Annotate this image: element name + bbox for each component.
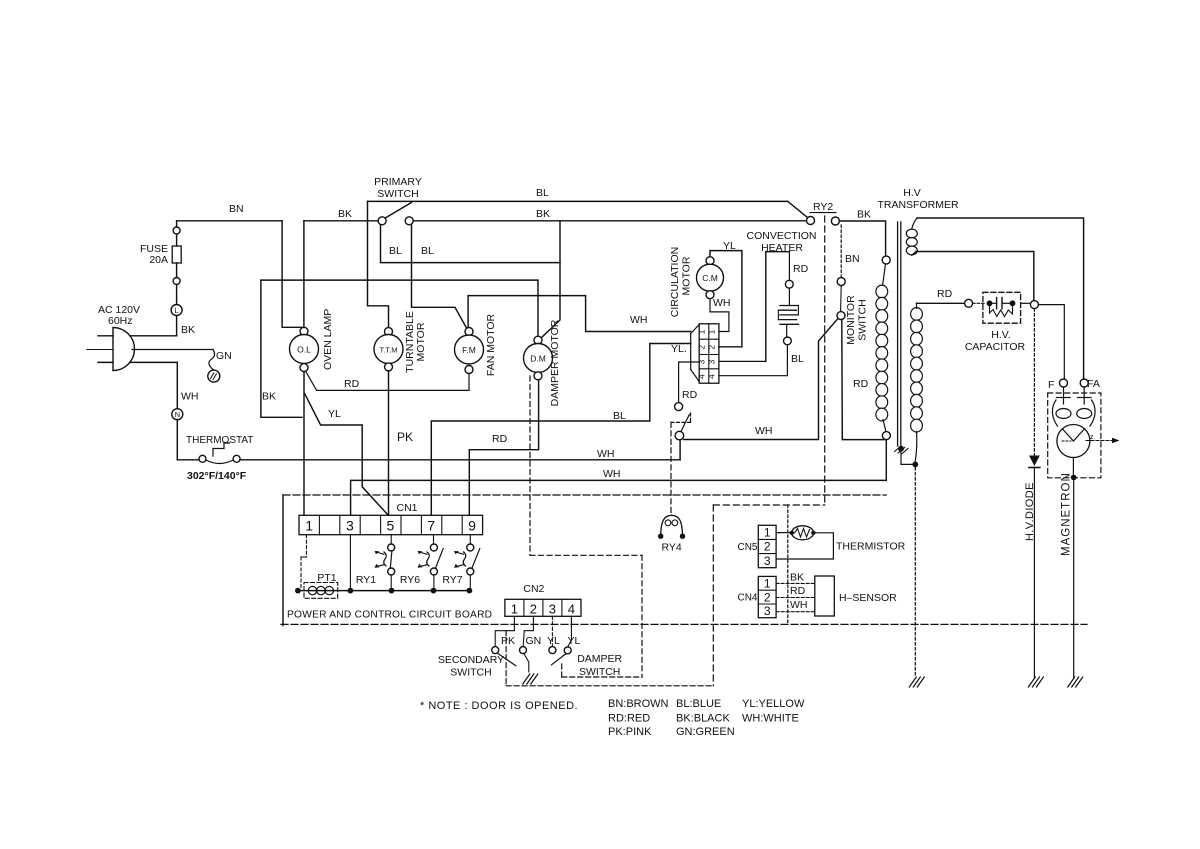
wire WH C.M to CN3 pin1 [710,299,729,332]
svg-text:BK: BK [181,324,195,336]
ground [1028,677,1035,687]
svg-text:PRIMARY: PRIMARY [374,176,422,188]
wire RD CN4 pin2 to H-sensor [776,597,815,599]
wire BK bus to RY2 [413,220,806,222]
wire PK T.T.M to CN1 pin5 [388,371,390,515]
wire RD CN3 pin3 to contact [679,362,700,402]
svg-text:9: 9 [468,518,476,534]
svg-text:YL:YELLOW: YL:YELLOW [742,698,805,710]
node F.M top terminal [465,328,473,336]
wire BK left loop [261,280,302,417]
node D.M top terminal [534,336,542,344]
wire CN1 pin1 to PT1 bus [306,535,308,557]
wire BK to damper motor (y280) [261,280,538,336]
svg-text:WH: WH [181,391,199,403]
svg-text:T.T.M: T.T.M [380,345,398,354]
svg-text:2: 2 [764,540,771,554]
svg-text:CIRCULATION: CIRCULATION [669,247,681,317]
lamp terminal L [171,305,182,316]
svg-text:C.M: C.M [702,273,718,283]
svg-text:SWITCH: SWITCH [579,666,620,678]
wire WH1 up to contact [679,440,681,460]
wire WH plug to N [130,361,177,363]
wire BN to monitor switch [840,225,842,278]
dashed RY2 wire [824,216,826,505]
svg-text:RD: RD [682,389,698,401]
wire CN2 pin2 to ground [523,616,533,646]
svg-text:MOTOR: MOTOR [415,322,427,361]
svg-text:D.M: D.M [530,353,546,363]
wire CN2 pin3 to damper switch [551,616,553,646]
monitor switch [837,278,845,286]
dashed damper box [561,664,563,677]
wire WH to monitor switch [684,319,838,440]
wire WH1 thermostat to control area [240,459,680,461]
svg-text:THERMISTOR: THERMISTOR [836,541,906,553]
svg-text:DAMPER: DAMPER [577,653,622,665]
svg-text:7: 7 [427,518,435,534]
ground [523,674,530,684]
svg-text:RD: RD [853,378,869,390]
svg-text:POWER AND CONTROL CIRCUIT BOAR: POWER AND CONTROL CIRCUIT BOARD [287,610,492,621]
transformer core [897,222,899,446]
node HV junction [1030,301,1038,309]
node oven-lamp top terminal [300,327,308,335]
wire RD monitor to transformer bottom [842,320,887,440]
svg-text:BL: BL [613,410,626,422]
wire CN3 pin3 to convection heater [719,360,766,362]
svg-text:GN: GN [526,635,542,647]
svg-text:H–SENSOR: H–SENSOR [839,592,897,604]
wire BL from switch left contact [381,225,561,263]
fuse F1 20A [172,246,181,263]
core ground hatch [895,446,902,452]
wire WH fan motor to CN3 [468,296,691,332]
capacitor C1 H.V. box [983,292,1021,323]
relay bus [298,590,470,592]
svg-text:BL: BL [791,353,804,365]
svg-text:1: 1 [696,329,706,334]
wire BN drop to oven lamp [282,221,302,327]
wire magnetron to ground [1072,458,1074,475]
node door sense contact [675,403,683,411]
wire capacitor to junction [1021,302,1031,304]
oven lamp O.L [290,335,319,364]
svg-text:L: L [175,306,179,315]
svg-text:* NOTE : DOOR IS OPENED.: * NOTE : DOOR IS OPENED. [420,700,578,712]
wire BN bus [176,221,178,227]
svg-text:20A: 20A [149,254,168,266]
wire dashed D.M to damper switch box [529,376,531,555]
svg-text:PK: PK [397,430,413,444]
svg-text:THERMOSTAT: THERMOSTAT [186,435,253,446]
svg-text:SECONDARY: SECONDARY [438,654,504,666]
relay RY4 coil [661,515,683,536]
wire BK tie to damper motor [541,221,560,338]
thermostat 302F/140F [199,455,206,462]
wire O.L bottom to CN1 pin1 (BK) [303,372,305,515]
wire RD O.L to fan motor [306,372,317,391]
svg-text:60Hz: 60Hz [108,315,133,327]
svg-text:PK: PK [501,635,515,647]
primary winding [883,264,886,286]
node F.M bottom terminal [465,366,473,374]
svg-text:1: 1 [305,518,313,534]
wire WH CN4 pin3 to H-sensor [776,611,815,613]
node C.M top terminal [706,257,714,265]
svg-text:MOTOR: MOTOR [681,256,693,295]
svg-text:BN: BN [845,253,860,265]
diode D1 H.V. [1033,309,1035,455]
wire BL switch right contact to fan motor [412,225,467,329]
svg-text:YL: YL [328,408,341,420]
svg-text:SWITCH: SWITCH [377,188,418,200]
svg-text:BN:BROWN: BN:BROWN [608,698,669,710]
svg-text:OVEN LAMP: OVEN LAMP [322,309,334,370]
wire CN5 pin1 to thermistor [776,532,791,534]
wire to thermostat [176,420,178,460]
wire YL C.M to CN3 pin2 [710,251,742,347]
node C.M bottom terminal [706,291,714,299]
wire BL to turntable motor [368,201,389,327]
svg-text:RY2: RY2 [813,201,833,213]
svg-text:MAGNETRON: MAGNETRON [1061,472,1073,556]
svg-text:3: 3 [706,359,716,364]
svg-text:WH: WH [790,599,808,611]
node T.T.M top terminal [385,328,393,336]
svg-text:BK: BK [262,391,276,403]
svg-text:4: 4 [568,601,575,616]
svg-text:z: z [1090,434,1094,441]
svg-text:WH:WHITE: WH:WHITE [742,713,799,725]
svg-text:1: 1 [764,526,771,540]
CN3 left fan [690,334,692,370]
svg-text:YL: YL [723,240,736,252]
svg-text:O.L: O.L [297,344,311,354]
node T.T.M bottom terminal [385,363,393,371]
svg-text:BK: BK [536,208,550,220]
svg-text:RD: RD [492,433,508,445]
svg-text:BL:BLUE: BL:BLUE [676,698,721,710]
wire F.M bottom to RD line [468,374,470,391]
svg-text:YL.: YL. [671,343,687,355]
wire BK drop to oven lamp [303,221,305,328]
node WH contact [675,431,684,440]
wire BL top bus [368,200,788,202]
wire BL to CN1 pin7 [431,344,690,516]
node RD terminal [965,299,973,307]
svg-text:H.V.: H.V. [991,329,1010,341]
node D.M bottom terminal [534,372,542,380]
wire BK to primary switch [304,220,379,222]
svg-text:2: 2 [696,345,706,350]
terminal [173,278,180,285]
node heater RD terminal [785,280,793,288]
svg-text:CAPACITOR: CAPACITOR [965,341,1026,353]
wire plug to fuse (BK) [130,335,177,337]
svg-text:TRANSFORMER: TRANSFORMER [877,199,959,211]
filament winding [906,229,917,238]
svg-text:YL: YL [568,635,581,647]
svg-text:3: 3 [549,601,556,616]
thermistor RT1 [792,526,814,540]
svg-text:CN1: CN1 [396,502,417,514]
svg-text:BK: BK [857,209,871,221]
svg-text:RD:RED: RD:RED [608,713,650,725]
wire [176,285,178,305]
wire BK RY2 to transformer [839,221,885,256]
circulation motor C.M [697,264,724,291]
svg-text:DAMPER MOTOR: DAMPER MOTOR [549,319,561,406]
wire BK CN4 pin1 to H-sensor [776,582,815,584]
svg-text:2: 2 [706,345,716,350]
svg-text:GN: GN [216,350,232,362]
wire RD D.M to CN1 pin9 [469,380,538,515]
svg-text:CN2: CN2 [523,583,544,595]
node core junction [898,446,904,452]
svg-text:CN4: CN4 [737,593,757,604]
svg-text:2: 2 [764,590,771,604]
node primary bottom terminal [882,432,890,440]
svg-text:SWITCH: SWITCH [450,667,491,679]
wire CN1 pin3 down [349,535,351,591]
svg-text:FA: FA [1087,378,1100,390]
svg-text:BN: BN [229,203,244,215]
svg-text:WH: WH [630,314,648,326]
wire dashed to RY4 coil [670,422,672,514]
svg-text:3: 3 [764,604,771,618]
neutral terminal N [172,409,183,420]
svg-text:4: 4 [696,374,706,379]
svg-text:CN5: CN5 [737,542,757,553]
ground [1068,677,1075,687]
ground [909,677,916,687]
svg-text:BL: BL [421,245,434,257]
svg-text:4: 4 [706,374,716,379]
wire GN to ground [132,349,213,351]
svg-text:MONITOR: MONITOR [845,295,857,345]
svg-text:BL: BL [389,245,402,257]
svg-text:1: 1 [511,601,518,616]
svg-text:F: F [1048,379,1054,391]
wire [176,263,178,278]
svg-text:N: N [175,410,180,419]
svg-text:1: 1 [706,329,716,334]
wire GN ground lead [209,350,215,371]
wire RD secondary to capacitor [917,302,965,304]
wire YL O.L to CN1 pin5 [305,394,388,516]
magnetron V1 [1048,393,1101,478]
node oven-lamp bottom terminal [300,364,308,372]
svg-text:SWITCH: SWITCH [857,299,869,340]
wire filament top to FA [917,218,1084,379]
wire WH2 CN1 pin3 to transformer [351,441,887,515]
dashed enclosure right [712,505,714,686]
svg-text:RY4: RY4 [661,542,681,554]
svg-text:RD: RD [937,288,953,300]
svg-text:302°F/140°F: 302°F/140°F [187,470,247,482]
svg-text:GN:GREEN: GN:GREEN [676,726,735,738]
svg-text:CONVECTION: CONVECTION [746,230,816,242]
relay RY6 [433,535,435,544]
fan motor F.M [455,335,484,364]
wire to chassis ground [914,468,916,678]
wire BL diag to RY2 [788,201,808,217]
svg-text:H.V: H.V [903,187,921,199]
wire filament bottom to junction [916,252,1034,301]
svg-text:RD: RD [793,263,809,275]
svg-text:H.V.DIODE: H.V.DIODE [1024,482,1036,541]
svg-text:F.M: F.M [462,345,476,355]
node primary top terminal [882,256,890,264]
svg-text:BK: BK [338,208,352,220]
damper motor D.M [524,344,553,373]
ground GN circle [208,370,220,382]
svg-text:PK:PINK: PK:PINK [608,726,652,738]
svg-text:2: 2 [530,601,537,616]
connector CN3 [699,324,719,383]
svg-text:WH: WH [755,425,773,437]
relay RY7 [469,535,471,544]
svg-text:FAN MOTOR: FAN MOTOR [485,313,497,376]
svg-text:BK: BK [790,572,804,584]
turntable motor T.T.M [374,335,403,364]
wire junction to magnetron F [1038,305,1064,379]
node heater BL terminal [784,337,792,345]
bleeder resistor [990,306,1013,317]
svg-text:RY7: RY7 [442,574,462,586]
secondary switch [492,647,499,654]
interlock blade [681,415,689,432]
wire BL heater to CN3 pin4 [719,345,788,376]
svg-text:3: 3 [346,518,354,534]
svg-text:WH: WH [597,448,615,460]
relay RY1 [390,535,392,544]
svg-text:RY1: RY1 [356,574,376,586]
svg-text:RY6: RY6 [400,574,420,586]
svg-text:YL: YL [547,635,560,647]
AC plug [113,328,134,371]
wire [176,234,178,246]
node secondary ground junction [912,462,918,468]
power and control circuit board outline [282,495,284,626]
svg-text:WH: WH [713,297,731,309]
dashed switch box bottom [505,631,507,686]
wire CN2 pin1 to secondary switch [495,616,514,646]
svg-text:BK:BLACK: BK:BLACK [676,713,730,725]
wire thermistor to CN5 pin3 [776,533,833,559]
svg-text:RD: RD [790,585,806,597]
svg-text:RD: RD [344,378,360,390]
damper switch [549,647,556,654]
wire CN2 pin4 to damper switch [568,616,572,646]
antenna arrow [1086,440,1113,442]
H-sensor [815,576,835,616]
svg-text:BL: BL [536,187,549,199]
svg-text:WH: WH [603,468,621,480]
svg-text:1: 1 [764,577,771,591]
heater element [780,305,798,307]
svg-text:5: 5 [387,518,395,534]
svg-text:3: 3 [764,554,771,568]
terminal [173,227,180,234]
secondary winding [911,308,923,321]
